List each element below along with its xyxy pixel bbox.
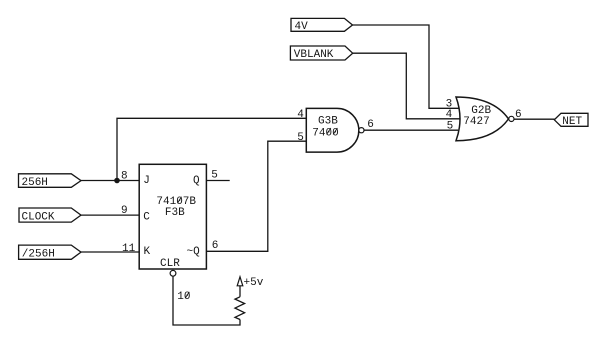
svg-text:J: J [143, 175, 150, 187]
svg-text:5: 5 [297, 132, 304, 144]
wire 4V to G2B pin 3 [353, 25, 461, 108]
wire junction to G3B pin 4 [117, 118, 308, 180]
svg-text:5: 5 [447, 120, 454, 132]
slashed zero marks [177, 128, 337, 298]
svg-text:5: 5 [211, 169, 218, 181]
svg-text:256H: 256H [22, 177, 48, 189]
wire ~Q to G3B pin 5 [206, 141, 308, 251]
tag VBLANK [290, 46, 352, 61]
tag CLOCK [19, 208, 81, 223]
svg-text:74107B: 74107B [156, 196, 196, 208]
wire Q output stub [206, 180, 229, 182]
svg-text:4V: 4V [295, 21, 309, 33]
flip-flop F3B 74107B [139, 164, 206, 269]
svg-text:6: 6 [212, 240, 219, 252]
svg-text:6: 6 [367, 119, 374, 131]
svg-text:F3B: F3B [165, 207, 185, 219]
svg-text:+5v: +5v [244, 277, 264, 289]
svg-text:VBLANK: VBLANK [294, 49, 334, 61]
svg-text:4: 4 [446, 109, 453, 121]
wire VBLANK to G2B pin 4 [353, 53, 462, 119]
svg-text:6: 6 [515, 109, 522, 121]
tag 256H [19, 174, 82, 189]
wire resistor to +5V arrow [239, 286, 241, 297]
wire CLOCK to C pin [80, 214, 139, 216]
node junction dot [114, 178, 120, 184]
wire CLR to resistor bottom [173, 276, 240, 325]
CLR bubble [170, 270, 176, 276]
svg-text:Q: Q [193, 175, 200, 187]
resistor R1 [235, 297, 245, 320]
tag NET [554, 113, 588, 128]
wire G3B output to G2B pin 5 [364, 129, 458, 131]
svg-text:NET: NET [562, 116, 582, 128]
svg-text:C: C [143, 212, 150, 224]
nand gate G3B 7400 [306, 108, 364, 152]
wire /256H to K pin [80, 251, 139, 253]
wire 256H to J pin [80, 180, 139, 182]
svg-text:4: 4 [297, 109, 304, 121]
tag /256H [19, 245, 81, 260]
svg-text:9: 9 [121, 205, 128, 217]
svg-text:K: K [144, 246, 151, 258]
svg-text:8: 8 [121, 171, 128, 183]
svg-text:11: 11 [122, 243, 136, 255]
svg-text:7400: 7400 [312, 127, 338, 139]
svg-text:/256H: /256H [22, 248, 55, 260]
svg-text:CLR: CLR [160, 258, 180, 270]
nor gate G2B 7427 [456, 97, 514, 141]
svg-text:G3B: G3B [318, 116, 338, 128]
power +5V [237, 277, 264, 289]
svg-text:CLOCK: CLOCK [22, 211, 55, 223]
wire G2B output to NET [514, 118, 556, 120]
tag 4V [291, 18, 353, 33]
svg-text:7427: 7427 [463, 116, 489, 128]
svg-text:~Q: ~Q [187, 246, 201, 258]
